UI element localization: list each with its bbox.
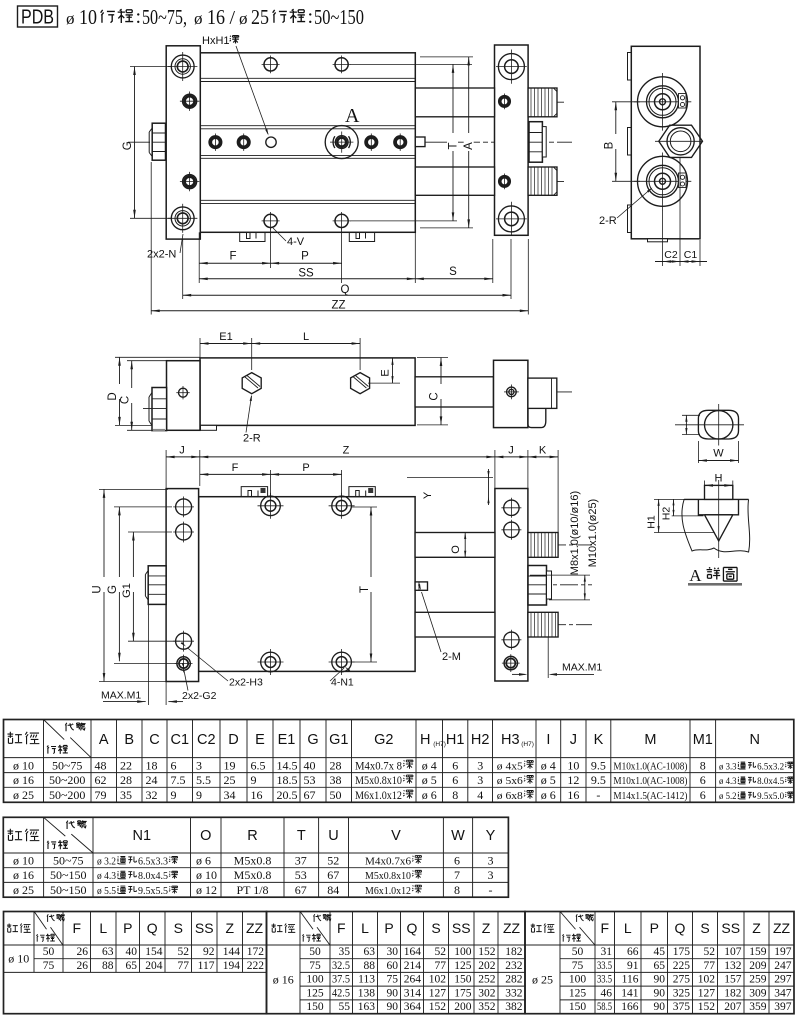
svg-text:102: 102 xyxy=(429,974,447,986)
M clamp screw on body edge xyxy=(415,582,427,590)
svg-text:91: 91 xyxy=(627,960,639,972)
svg-text:163: 163 xyxy=(358,1001,376,1013)
svg-text:ø 5: ø 5 xyxy=(422,773,437,787)
svg-text:P: P xyxy=(650,920,659,936)
svg-text:90: 90 xyxy=(387,1001,399,1013)
sensor rail tab bottom-left (top view) xyxy=(240,232,265,241)
svg-text:37: 37 xyxy=(295,853,307,867)
svg-text:M5x0.8: M5x0.8 xyxy=(234,868,272,882)
svg-text:50~150: 50~150 xyxy=(314,5,364,29)
HxH1 hole (open) xyxy=(266,137,276,147)
svg-text:6: 6 xyxy=(700,788,706,802)
svg-text:P: P xyxy=(384,920,393,936)
svg-text:8: 8 xyxy=(454,883,460,897)
table 2 grid xyxy=(43,817,45,897)
dimension C2 C1 xyxy=(662,210,664,266)
svg-text:ø 5.2: ø 5.2 xyxy=(719,792,737,802)
svg-text:67: 67 xyxy=(327,868,339,882)
top view guide rod centerline upper xyxy=(406,101,566,103)
svg-text:E1: E1 xyxy=(278,732,296,748)
svg-text:202: 202 xyxy=(478,960,496,972)
threaded stud lower xyxy=(528,167,557,195)
threaded stud upper xyxy=(528,88,557,117)
svg-text:364: 364 xyxy=(404,1001,422,1013)
svg-text:7.5: 7.5 xyxy=(171,773,186,787)
right plate set screw lower xyxy=(499,176,511,188)
dimension G (left) xyxy=(134,67,136,219)
svg-text:J: J xyxy=(179,444,185,456)
svg-text:88: 88 xyxy=(102,960,114,972)
left end plate (middle view) xyxy=(167,361,201,431)
dimension U xyxy=(103,489,105,681)
right plate hole lower xyxy=(504,632,519,647)
4-N1 corner holes xyxy=(261,496,281,516)
svg-text:33.5: 33.5 xyxy=(597,974,612,986)
svg-text:ø 25: ø 25 xyxy=(13,883,34,897)
svg-text:M6x1.0x12: M6x1.0x12 xyxy=(355,790,402,802)
stopper hook under collar xyxy=(528,408,546,427)
svg-text:26: 26 xyxy=(77,946,89,958)
svg-text:172: 172 xyxy=(247,946,265,958)
plug head above surface xyxy=(705,485,733,499)
svg-text:209: 209 xyxy=(749,960,767,972)
svg-text:18.5: 18.5 xyxy=(277,773,298,787)
svg-text:53: 53 xyxy=(295,868,307,882)
svg-text:Q: Q xyxy=(147,920,158,936)
rod collar (middle view) xyxy=(528,378,557,408)
svg-text:4-N1: 4-N1 xyxy=(331,677,354,689)
svg-text:ø: ø xyxy=(66,9,75,28)
svg-text:35: 35 xyxy=(120,788,132,802)
svg-text:ø 6: ø 6 xyxy=(541,788,556,802)
svg-text:W: W xyxy=(451,828,465,844)
svg-text:275: 275 xyxy=(673,974,691,986)
svg-text:H2: H2 xyxy=(471,732,490,748)
svg-text:8.0x4.5: 8.0x4.5 xyxy=(138,871,168,882)
sensor tab under body (middle view) xyxy=(201,425,217,430)
svg-text:132: 132 xyxy=(724,960,742,972)
svg-text:50: 50 xyxy=(43,946,55,958)
svg-text:302: 302 xyxy=(478,987,496,999)
svg-text:138: 138 xyxy=(358,987,376,999)
svg-text:ø 4: ø 4 xyxy=(541,758,556,772)
svg-text:127: 127 xyxy=(429,987,447,999)
svg-text:Z: Z xyxy=(752,920,761,936)
svg-text:100: 100 xyxy=(569,974,587,986)
rod-end hex nut (middle view) xyxy=(152,388,167,431)
svg-text:F: F xyxy=(72,920,81,936)
svg-text:SS: SS xyxy=(195,920,214,936)
svg-text:100: 100 xyxy=(306,974,324,986)
svg-text:232: 232 xyxy=(505,960,523,972)
detail circle A around hole xyxy=(325,126,358,159)
counterbore recess xyxy=(698,499,738,514)
svg-text:125: 125 xyxy=(306,987,324,999)
2x2-H3 hole lower xyxy=(176,633,192,649)
dimension F P row (bottom) xyxy=(270,470,272,498)
svg-text:G1: G1 xyxy=(121,583,133,598)
top view guide rod centerline lower xyxy=(406,180,566,182)
svg-text:B: B xyxy=(124,732,134,748)
svg-text:V: V xyxy=(391,828,401,844)
svg-text:42.5: 42.5 xyxy=(332,987,350,999)
svg-text:R: R xyxy=(247,828,257,844)
svg-text:175: 175 xyxy=(673,946,691,958)
dimension ZZ row xyxy=(150,162,152,315)
svg-text:84: 84 xyxy=(327,883,339,897)
svg-text:152: 152 xyxy=(698,1001,716,1013)
bottom view rod centerline lower xyxy=(408,624,592,626)
svg-text:16: 16 xyxy=(567,788,579,802)
center boss hex xyxy=(659,125,703,157)
end view body xyxy=(631,46,700,239)
svg-text:8: 8 xyxy=(452,788,458,802)
table 3 sub-table for bore 25 xyxy=(525,912,794,1014)
dimension T (vertical right) xyxy=(452,64,454,221)
svg-text:90: 90 xyxy=(387,987,399,999)
svg-text:ø: ø xyxy=(194,9,203,28)
svg-text:14.5: 14.5 xyxy=(277,758,298,772)
svg-text:ø 6: ø 6 xyxy=(422,788,437,802)
svg-text:100: 100 xyxy=(454,946,472,958)
svg-text:H: H xyxy=(715,473,723,485)
A detail rod section (stadium + circle) xyxy=(698,410,738,439)
svg-text:116: 116 xyxy=(622,974,639,986)
svg-text:359: 359 xyxy=(749,1001,767,1013)
table 3 sub-table for bore 16 xyxy=(267,912,526,1014)
svg-text:C1: C1 xyxy=(170,732,189,748)
dimension SS / S row xyxy=(414,232,416,283)
dimension T (bottom view) xyxy=(370,507,372,662)
svg-text:159: 159 xyxy=(749,946,767,958)
svg-text:113: 113 xyxy=(358,974,375,986)
svg-text:A: A xyxy=(463,142,475,150)
svg-text:SS: SS xyxy=(452,920,471,936)
svg-text:31: 31 xyxy=(601,946,613,958)
svg-text:35: 35 xyxy=(339,946,351,958)
svg-text:90: 90 xyxy=(654,1001,666,1013)
svg-text:16: 16 xyxy=(251,788,263,802)
svg-text:ø 25: ø 25 xyxy=(532,973,553,987)
middle view nut axis line xyxy=(143,408,208,410)
dimension C left xyxy=(131,361,133,431)
svg-text:164: 164 xyxy=(404,946,422,958)
svg-text:32.5: 32.5 xyxy=(332,960,350,972)
svg-text:Y: Y xyxy=(486,828,496,844)
svg-text:SS: SS xyxy=(298,268,314,280)
svg-text:S: S xyxy=(174,920,183,936)
svg-text:7: 7 xyxy=(454,868,460,882)
hex nut right (bottom view) xyxy=(528,566,547,606)
dimension E1 / L xyxy=(199,338,201,358)
dimension Y xyxy=(407,477,493,479)
svg-text:G1: G1 xyxy=(329,732,348,748)
A detail flat height dim xyxy=(685,415,687,434)
svg-text:S: S xyxy=(431,920,440,936)
center row screws xyxy=(209,136,222,149)
svg-text:O: O xyxy=(450,545,462,554)
svg-text:U: U xyxy=(92,585,104,593)
small hole left plate (middle view) xyxy=(179,388,188,397)
svg-text:10: 10 xyxy=(79,5,97,29)
svg-text:90: 90 xyxy=(654,987,666,999)
svg-text:79: 79 xyxy=(95,788,107,802)
svg-text:L: L xyxy=(361,920,369,936)
svg-text:ø 5.5: ø 5.5 xyxy=(97,886,116,897)
svg-text:5.5: 5.5 xyxy=(196,773,211,787)
svg-text:52: 52 xyxy=(327,853,339,867)
svg-text:117: 117 xyxy=(198,960,215,972)
svg-text:PDB: PDB xyxy=(21,7,54,29)
svg-text:H1: H1 xyxy=(446,732,465,748)
right plate holes upper pair xyxy=(504,500,519,515)
svg-text:N1: N1 xyxy=(132,828,151,844)
svg-text:L: L xyxy=(99,920,107,936)
svg-text:ZZ: ZZ xyxy=(331,300,345,312)
svg-text:C: C xyxy=(149,732,159,748)
svg-text:9.5: 9.5 xyxy=(591,758,606,772)
svg-text:E: E xyxy=(380,369,392,376)
right plate set screw upper xyxy=(499,96,511,108)
svg-text:G: G xyxy=(107,585,119,594)
top view centerline main axis xyxy=(128,141,572,143)
cylinder body (middle view) xyxy=(200,358,415,426)
svg-text:50~150: 50~150 xyxy=(50,868,87,882)
svg-text::: : xyxy=(308,6,314,28)
svg-text:M5x0.8x10: M5x0.8x10 xyxy=(365,870,411,882)
svg-text:C: C xyxy=(120,396,132,404)
dimension D xyxy=(119,357,121,425)
threaded stud lower (bottom view) xyxy=(528,612,558,637)
svg-text:102: 102 xyxy=(698,974,716,986)
sensor tab top-left (bottom view) xyxy=(241,487,267,497)
left plate counterbore hole bottom xyxy=(171,207,194,230)
svg-text:3: 3 xyxy=(488,868,494,882)
svg-text:ø 4.3: ø 4.3 xyxy=(719,777,737,787)
svg-text:50: 50 xyxy=(330,788,342,802)
port circle bottom (R port) xyxy=(638,156,688,206)
wavy break outline xyxy=(682,499,750,552)
bottom view piston axis centerline xyxy=(504,584,592,586)
svg-text:125: 125 xyxy=(569,987,587,999)
svg-text:150: 150 xyxy=(306,1001,324,1013)
guide rod upper (bottom view) xyxy=(415,533,495,558)
svg-text:9.5x5.0: 9.5x5.0 xyxy=(757,792,784,802)
svg-text:30: 30 xyxy=(387,946,399,958)
svg-text:18: 18 xyxy=(146,758,158,772)
right end plate (top view) xyxy=(495,45,529,235)
svg-text:ø 4.3: ø 4.3 xyxy=(97,871,116,882)
svg-text:F: F xyxy=(232,462,239,474)
port bottom lug xyxy=(679,173,687,188)
svg-text:S: S xyxy=(449,266,457,278)
svg-text:ø 3.3: ø 3.3 xyxy=(719,762,737,772)
2x2-H3 holes upper pair xyxy=(176,499,192,515)
svg-text:Q: Q xyxy=(407,920,418,936)
svg-text:50~75: 50~75 xyxy=(53,853,84,867)
svg-text:M14x1.5(AC-1412): M14x1.5(AC-1412) xyxy=(613,790,687,802)
svg-text:G: G xyxy=(122,141,134,150)
dimension O xyxy=(420,532,470,534)
svg-text:S: S xyxy=(700,920,709,936)
port top lug xyxy=(679,94,687,109)
svg-text:9: 9 xyxy=(196,788,202,802)
svg-text:157: 157 xyxy=(724,974,742,986)
svg-text:-: - xyxy=(596,788,600,802)
svg-text:H3: H3 xyxy=(501,732,520,748)
svg-text:67: 67 xyxy=(295,883,307,897)
svg-text:J: J xyxy=(508,444,514,456)
svg-text:9: 9 xyxy=(171,788,177,802)
svg-text:154: 154 xyxy=(145,946,163,958)
svg-text:-: - xyxy=(489,883,493,897)
svg-text:50~200: 50~200 xyxy=(49,788,86,802)
bottom view rod centerline upper xyxy=(408,544,592,546)
table 1 grid xyxy=(43,720,45,803)
svg-text:T: T xyxy=(448,142,460,149)
svg-text:P: P xyxy=(302,462,309,474)
nut height dim xyxy=(530,574,590,576)
svg-text:252: 252 xyxy=(478,974,496,986)
svg-text:50~200: 50~200 xyxy=(49,773,86,787)
svg-text:48: 48 xyxy=(95,758,107,772)
svg-text:28: 28 xyxy=(120,773,132,787)
svg-text:182: 182 xyxy=(505,946,523,958)
svg-text:J: J xyxy=(570,732,577,748)
svg-text:63: 63 xyxy=(364,946,376,958)
svg-text:214: 214 xyxy=(404,960,422,972)
svg-text:282: 282 xyxy=(505,974,523,986)
svg-text:M4x0.7x6: M4x0.7x6 xyxy=(365,855,412,867)
svg-text:ø: ø xyxy=(239,9,248,28)
svg-text:125: 125 xyxy=(454,960,472,972)
cylinder body (top view) xyxy=(200,53,415,233)
svg-text:Q: Q xyxy=(341,284,350,296)
left end plate (top view) xyxy=(166,46,200,239)
svg-text:200: 200 xyxy=(454,1001,472,1013)
svg-text:2-M: 2-M xyxy=(442,651,461,663)
hex screw 2-R right xyxy=(351,373,370,394)
svg-text:L: L xyxy=(303,331,309,343)
svg-text:259: 259 xyxy=(749,974,767,986)
svg-text:L: L xyxy=(624,920,632,936)
svg-text:197: 197 xyxy=(774,946,792,958)
svg-text:152: 152 xyxy=(478,946,496,958)
rod-end hex nut left (top view) xyxy=(152,123,165,160)
dimension A (vertical right) xyxy=(468,57,470,228)
svg-text:ZZ: ZZ xyxy=(246,920,264,936)
svg-text:F: F xyxy=(229,251,236,263)
svg-text:9.5: 9.5 xyxy=(591,773,606,787)
svg-text:50: 50 xyxy=(309,946,321,958)
svg-text:25: 25 xyxy=(251,5,269,29)
svg-text:ø 3.2: ø 3.2 xyxy=(97,856,116,867)
svg-text:152: 152 xyxy=(429,1001,447,1013)
svg-text:C2: C2 xyxy=(664,249,678,261)
svg-text:52: 52 xyxy=(704,946,716,958)
svg-text:325: 325 xyxy=(673,987,691,999)
svg-text:MAX.M1: MAX.M1 xyxy=(101,690,141,702)
svg-text:M5x0.8x10: M5x0.8x10 xyxy=(355,775,402,787)
svg-text:26: 26 xyxy=(77,960,89,972)
svg-text:ø 16: ø 16 xyxy=(13,773,34,787)
svg-text:(H7): (H7) xyxy=(433,741,446,748)
svg-text:D: D xyxy=(107,392,119,400)
guide rod lower (top view) xyxy=(415,167,494,195)
svg-text:50~75: 50~75 xyxy=(52,758,83,772)
svg-text:63: 63 xyxy=(102,946,114,958)
svg-text:247: 247 xyxy=(774,960,792,972)
svg-text:6: 6 xyxy=(454,853,460,867)
svg-text:40: 40 xyxy=(126,946,138,958)
svg-text:16: 16 xyxy=(207,5,225,29)
dimension Q row xyxy=(182,239,184,299)
drill cone xyxy=(705,515,733,541)
svg-text:6: 6 xyxy=(452,758,458,772)
left plate counterbore hole top xyxy=(171,55,194,78)
svg-text:Q: Q xyxy=(675,920,686,936)
svg-text:ø 6x8: ø 6x8 xyxy=(497,790,524,802)
svg-text:20.5: 20.5 xyxy=(277,788,298,802)
right plate (middle view) xyxy=(494,360,528,427)
svg-text:25: 25 xyxy=(224,773,236,787)
svg-text:6.5: 6.5 xyxy=(251,758,266,772)
svg-text:144: 144 xyxy=(223,946,241,958)
2x2-G2 hole lower (double) xyxy=(177,657,190,670)
dimension C right xyxy=(417,357,448,359)
svg-text:37.5: 37.5 xyxy=(332,974,350,986)
svg-text:Y: Y xyxy=(422,491,434,499)
left plate screw lower xyxy=(183,175,197,189)
svg-text:175: 175 xyxy=(454,987,472,999)
table 3 sub-table for bore 10 xyxy=(4,912,267,1014)
svg-text:92: 92 xyxy=(203,946,215,958)
svg-text:60: 60 xyxy=(387,960,399,972)
svg-text:24: 24 xyxy=(146,773,158,787)
body (bottom view) xyxy=(199,497,416,672)
end view left rail tabs xyxy=(628,53,632,233)
svg-text:D: D xyxy=(228,732,238,748)
svg-text:40: 40 xyxy=(304,758,316,772)
svg-text:75: 75 xyxy=(43,960,55,972)
left plate screw upper xyxy=(183,94,197,108)
svg-text:58.5: 58.5 xyxy=(597,1001,612,1013)
dimension F/P row xyxy=(198,232,200,283)
svg-text:264: 264 xyxy=(404,974,422,986)
svg-text:ZZ: ZZ xyxy=(773,920,791,936)
svg-text:MAX.M1: MAX.M1 xyxy=(562,662,602,674)
threaded stud upper (bottom view) xyxy=(528,533,558,558)
svg-text:M5x0.8: M5x0.8 xyxy=(234,853,272,867)
svg-text:225: 225 xyxy=(673,960,691,972)
dimension G1 xyxy=(132,532,134,641)
svg-text:194: 194 xyxy=(223,960,241,972)
svg-text:W: W xyxy=(713,448,724,460)
svg-text:O: O xyxy=(200,828,211,844)
dimension H (detail) xyxy=(704,481,706,500)
dimension H2 xyxy=(673,499,675,516)
svg-text:A: A xyxy=(345,105,360,127)
svg-text:347: 347 xyxy=(774,987,792,999)
svg-text:332: 332 xyxy=(505,987,523,999)
right plate hole lower double xyxy=(504,656,517,669)
right plate counterbore hole top xyxy=(498,54,524,80)
svg-text:6: 6 xyxy=(171,758,177,772)
svg-text:ø 5x6: ø 5x6 xyxy=(497,775,524,787)
svg-text:127: 127 xyxy=(698,987,716,999)
svg-text:6.5x3.2: 6.5x3.2 xyxy=(757,762,784,772)
svg-text:46: 46 xyxy=(601,987,613,999)
